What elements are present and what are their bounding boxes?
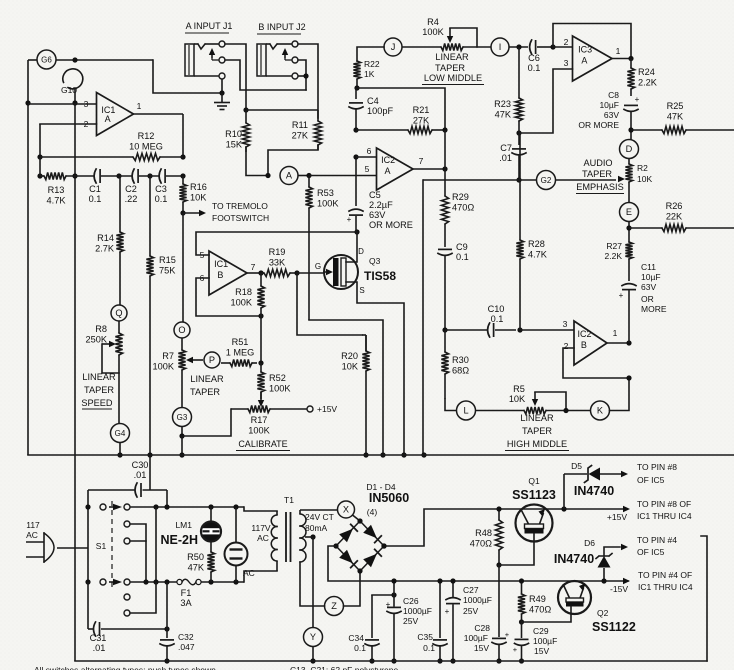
svg-text:+: + xyxy=(505,630,510,639)
node D xyxy=(620,140,639,159)
wire minus rail xyxy=(328,546,630,584)
op-amp IC3 A xyxy=(564,36,621,81)
wire xyxy=(298,175,309,177)
wire xyxy=(166,175,183,177)
wire xyxy=(153,60,222,93)
svg-text:470Ω: 470Ω xyxy=(529,605,551,615)
resistor R50 xyxy=(187,542,214,583)
svg-text:IC1: IC1 xyxy=(214,259,228,269)
plug 117AC xyxy=(26,520,88,562)
label low middle xyxy=(422,52,484,85)
switch S1 row2 xyxy=(124,521,146,541)
svg-text:+: + xyxy=(347,215,352,224)
jack J1 tip contact xyxy=(219,41,225,47)
wire xyxy=(312,537,314,628)
svg-text:R52: R52 xyxy=(269,373,286,383)
wire xyxy=(74,89,76,661)
wire G2 line xyxy=(423,180,537,455)
wire pin2 bracket xyxy=(553,24,631,59)
svg-text:1: 1 xyxy=(616,46,621,56)
node junction xyxy=(563,408,568,413)
svg-text:C10: C10 xyxy=(488,304,505,314)
capacitor C9 xyxy=(438,242,469,330)
node junction xyxy=(601,578,606,583)
svg-text:SS1123: SS1123 xyxy=(512,488,556,502)
wire row1-row4 link xyxy=(155,507,157,582)
svg-text:C6: C6 xyxy=(528,53,540,63)
wire -15 branch xyxy=(521,621,523,623)
diode D2 xyxy=(363,525,382,544)
svg-text:R4: R4 xyxy=(427,17,439,27)
wire Q2 base xyxy=(522,607,572,623)
label speed xyxy=(81,372,116,409)
svg-text:117: 117 xyxy=(26,520,40,530)
svg-text:R17: R17 xyxy=(251,415,268,425)
resistor R15 xyxy=(146,176,176,276)
wire xyxy=(260,316,262,363)
wire out xyxy=(607,342,629,344)
svg-text:4.7K: 4.7K xyxy=(47,196,67,206)
wire secondary bottom xyxy=(300,562,325,606)
svg-text:D: D xyxy=(358,247,364,256)
svg-text:D6: D6 xyxy=(584,538,595,548)
resistor R26 xyxy=(629,201,734,232)
wire pin6 bracket xyxy=(196,278,261,316)
potentiometer R5 xyxy=(509,384,546,414)
svg-text:C2: C2 xyxy=(125,184,137,194)
wire plus rail xyxy=(384,506,630,546)
svg-text:33K: 33K xyxy=(269,258,286,268)
svg-text:100K: 100K xyxy=(248,426,270,436)
diode D4 xyxy=(363,549,382,568)
svg-text:10µF: 10µF xyxy=(599,100,619,110)
node junction xyxy=(37,173,42,178)
capacitor C27 xyxy=(445,581,492,661)
svg-text:TAPER: TAPER xyxy=(582,169,612,179)
wire xyxy=(509,46,528,48)
capacitor C6 xyxy=(528,40,541,73)
node junction xyxy=(153,504,158,509)
switch S1 dashed xyxy=(96,501,112,588)
svg-text:63V: 63V xyxy=(641,282,656,292)
resistor R19 xyxy=(261,247,297,277)
ground xyxy=(214,93,230,110)
node X xyxy=(338,501,355,518)
svg-text:K: K xyxy=(597,406,604,416)
svg-text:C8: C8 xyxy=(608,90,619,100)
svg-text:63V: 63V xyxy=(369,210,386,220)
node junction xyxy=(354,229,359,234)
svg-text:2: 2 xyxy=(564,37,569,47)
wire xyxy=(556,179,617,181)
wire xyxy=(201,581,244,583)
svg-text:R22: R22 xyxy=(364,59,380,69)
wire R8 wiper xyxy=(102,341,119,373)
zener D5 IN4740 xyxy=(564,461,628,509)
label R4 xyxy=(422,17,444,37)
svg-text:1: 1 xyxy=(137,101,142,111)
transformer T1 secondary xyxy=(300,510,334,562)
svg-text:C1: C1 xyxy=(89,184,101,194)
wire xyxy=(445,399,456,411)
node junction xyxy=(391,658,396,663)
svg-text:TAPER: TAPER xyxy=(435,63,465,73)
switch S1 row4 xyxy=(85,579,177,585)
node junction xyxy=(258,360,263,365)
node J xyxy=(384,38,402,56)
resistor R27 xyxy=(605,241,633,281)
svg-text:R14: R14 xyxy=(97,233,114,243)
svg-text:100K: 100K xyxy=(317,199,339,209)
node junction xyxy=(496,506,501,511)
svg-text:+: + xyxy=(386,600,391,609)
svg-text:LINEAR: LINEAR xyxy=(435,52,469,62)
svg-text:G4: G4 xyxy=(115,429,126,438)
svg-text:C9: C9 xyxy=(456,242,468,252)
svg-text:80mA: 80mA xyxy=(305,523,328,533)
svg-text:75K: 75K xyxy=(159,266,176,276)
resistor R25 xyxy=(631,101,734,134)
svg-text:IC2: IC2 xyxy=(381,155,395,165)
node junction xyxy=(391,578,396,583)
node junction xyxy=(265,173,270,178)
resistor R52 xyxy=(257,363,291,399)
svg-text:100K: 100K xyxy=(231,298,253,308)
jack J1 switch arrow xyxy=(209,48,215,58)
node junction xyxy=(258,313,263,318)
svg-text:C13, C21: 62 pF polystyrene: C13, C21: 62 pF polystyrene xyxy=(290,665,398,670)
svg-text:R50: R50 xyxy=(187,552,204,562)
node junction xyxy=(626,375,631,380)
capacitor C31 xyxy=(88,582,167,653)
wire audio bus xyxy=(28,454,734,456)
svg-text:7: 7 xyxy=(419,156,424,166)
node junction xyxy=(243,107,248,112)
wire xyxy=(476,410,525,412)
audio taper pot R2 xyxy=(625,159,652,203)
svg-text:TO PIN #8 OF: TO PIN #8 OF xyxy=(637,499,691,509)
node junction xyxy=(628,127,633,132)
node junction xyxy=(561,506,566,511)
wire xyxy=(244,571,277,582)
wire xyxy=(300,509,338,511)
svg-text:+: + xyxy=(619,291,624,300)
resistor R18 xyxy=(231,273,265,316)
wire output bracket xyxy=(701,536,707,661)
node junction xyxy=(164,504,169,509)
label bridge diodes xyxy=(0,0,1,1)
svg-text:3A: 3A xyxy=(180,598,192,608)
node junction xyxy=(233,504,238,509)
capacitor C29 xyxy=(513,622,557,661)
wire xyxy=(181,427,183,437)
svg-text:Q2: Q2 xyxy=(597,608,609,618)
svg-text:A: A xyxy=(286,171,293,181)
resistor R11 xyxy=(292,110,322,150)
resistor R28 xyxy=(516,133,547,330)
svg-text:+15V: +15V xyxy=(317,404,337,414)
wire pin6 xyxy=(356,156,377,158)
wire xyxy=(221,79,223,93)
terminal to tremolo footswitch xyxy=(183,201,269,223)
svg-text:IC2: IC2 xyxy=(578,329,592,339)
node junction xyxy=(353,127,358,132)
svg-text:+15V: +15V xyxy=(607,512,627,522)
wire xyxy=(610,378,630,411)
wire xyxy=(139,175,159,177)
svg-text:R48: R48 xyxy=(475,528,492,538)
svg-text:IC1 THRU IC4: IC1 THRU IC4 xyxy=(638,582,693,592)
zener D6 IN4740 xyxy=(554,538,628,581)
fuse F1 xyxy=(177,579,201,608)
label linear taper xyxy=(190,374,224,397)
svg-text:R12: R12 xyxy=(138,131,155,141)
svg-text:C28: C28 xyxy=(474,623,490,633)
svg-text:.01: .01 xyxy=(93,643,106,653)
svg-text:T1: T1 xyxy=(284,495,294,505)
svg-text:0.1: 0.1 xyxy=(89,194,102,204)
wire pin3 IC2B xyxy=(520,329,574,331)
svg-text:Q: Q xyxy=(115,308,122,318)
svg-text:R2: R2 xyxy=(637,163,648,173)
svg-text:SPEED: SPEED xyxy=(81,398,113,408)
switch S1 row6 xyxy=(124,582,156,616)
svg-text:R49: R49 xyxy=(529,594,546,604)
resistor R49 xyxy=(518,581,551,622)
wire R52 wiper xyxy=(258,392,264,407)
svg-text:25V: 25V xyxy=(403,616,418,626)
svg-text:10µF: 10µF xyxy=(641,272,661,282)
svg-text:R28: R28 xyxy=(528,239,545,249)
svg-text:0.1: 0.1 xyxy=(155,194,168,204)
svg-text:B INPUT J2: B INPUT J2 xyxy=(258,22,305,32)
potentiometer R4 xyxy=(402,43,491,50)
node junction xyxy=(391,592,396,597)
svg-text:3: 3 xyxy=(564,58,569,68)
svg-text:6: 6 xyxy=(367,146,372,156)
resistor R7 pot xyxy=(153,338,186,372)
wire node A to IC2A pin5 xyxy=(309,175,377,177)
svg-text:100K: 100K xyxy=(269,384,291,394)
svg-text:.01: .01 xyxy=(499,153,512,163)
resistor R53 xyxy=(305,176,339,321)
svg-text:R7: R7 xyxy=(162,351,174,361)
svg-text:25V: 25V xyxy=(463,606,478,616)
svg-text:C7: C7 xyxy=(500,143,512,153)
node junction xyxy=(147,452,152,457)
node junction xyxy=(517,327,522,332)
op-amp IC2 B xyxy=(563,319,618,365)
svg-text:5: 5 xyxy=(365,164,370,174)
node junction xyxy=(180,210,185,215)
svg-text:Q1: Q1 xyxy=(528,476,540,486)
terminal +15V xyxy=(307,404,337,414)
svg-text:B: B xyxy=(581,340,587,350)
node junction center tap xyxy=(305,534,316,539)
node junction xyxy=(442,166,447,171)
svg-text:0.1: 0.1 xyxy=(354,643,366,653)
svg-text:C11: C11 xyxy=(641,262,656,272)
node Q xyxy=(111,305,127,321)
svg-text:R5: R5 xyxy=(513,384,525,394)
node junction xyxy=(550,44,555,49)
wire xyxy=(518,121,520,133)
wire jack1 tip xyxy=(225,44,246,107)
svg-text:R13: R13 xyxy=(48,185,65,195)
svg-text:TO PIN #8: TO PIN #8 xyxy=(637,462,677,472)
svg-text:EMPHASIS: EMPHASIS xyxy=(576,182,623,192)
svg-text:A INPUT J1: A INPUT J1 xyxy=(186,21,233,31)
capacitor C34 xyxy=(348,595,394,661)
svg-text:117V: 117V xyxy=(251,523,271,533)
svg-text:R18: R18 xyxy=(235,287,252,297)
wire xyxy=(246,147,268,176)
node junction xyxy=(180,173,185,178)
svg-text:R19: R19 xyxy=(269,247,286,257)
svg-text:3: 3 xyxy=(563,319,568,329)
svg-text:0.1: 0.1 xyxy=(528,63,541,73)
svg-text:.01: .01 xyxy=(134,470,147,480)
svg-text:TO PIN #4: TO PIN #4 xyxy=(637,535,677,545)
node junction xyxy=(208,504,213,509)
label to pin4 xyxy=(638,570,693,592)
AC outlet xyxy=(225,507,255,582)
jack J2 sleeve contact xyxy=(292,73,298,79)
node junction xyxy=(306,173,311,178)
transistor Q1 SS1123 xyxy=(512,476,556,542)
svg-text:OR: OR xyxy=(641,294,654,304)
jack J2 switch arrow xyxy=(282,48,288,58)
node junction xyxy=(294,270,299,275)
wire xyxy=(244,507,277,511)
svg-text:I: I xyxy=(499,42,502,52)
node junction xyxy=(143,579,148,584)
node K xyxy=(591,401,610,420)
svg-text:G6: G6 xyxy=(41,56,52,65)
node G2 xyxy=(537,171,556,190)
wire xyxy=(444,130,446,169)
transformer T1 core xyxy=(286,512,291,562)
svg-text:D5: D5 xyxy=(571,461,582,471)
jack J2 mid contact xyxy=(285,57,298,63)
wire xyxy=(182,409,231,436)
resistor R29 xyxy=(441,169,474,247)
svg-text:TAPER: TAPER xyxy=(522,426,552,436)
svg-text:C26: C26 xyxy=(403,596,419,606)
svg-text:(4): (4) xyxy=(367,507,378,517)
wire xyxy=(309,320,383,455)
svg-text:-15V: -15V xyxy=(610,584,628,594)
svg-text:250K: 250K xyxy=(86,335,108,345)
label +15V xyxy=(607,512,627,522)
svg-text:LOW MIDDLE: LOW MIDDLE xyxy=(424,73,482,83)
svg-text:27K: 27K xyxy=(292,131,309,141)
node junction xyxy=(164,658,169,663)
op-amp IC2 A xyxy=(365,146,424,190)
resistor R12 xyxy=(40,131,183,161)
svg-text:470Ω: 470Ω xyxy=(452,203,474,213)
node P xyxy=(204,352,220,368)
svg-text:G3: G3 xyxy=(177,413,188,422)
node junction xyxy=(180,154,185,159)
node junction xyxy=(219,90,224,95)
node junction xyxy=(516,130,521,135)
bridge rectifier D1-D4 xyxy=(333,482,409,574)
wire xyxy=(118,355,120,424)
capacitor C5 xyxy=(347,157,413,232)
wire xyxy=(40,124,97,157)
capacitor C30 xyxy=(88,460,167,507)
svg-text:OF IC5: OF IC5 xyxy=(637,547,665,557)
svg-text:AC: AC xyxy=(257,533,269,543)
node junction xyxy=(179,433,184,438)
wire out xyxy=(612,58,631,60)
wire gate xyxy=(297,272,324,274)
svg-text:LINEAR: LINEAR xyxy=(82,372,116,382)
capacitor C11 xyxy=(619,262,667,343)
svg-text:R53: R53 xyxy=(317,188,334,198)
capacitor C7 xyxy=(499,133,526,180)
svg-text:R27: R27 xyxy=(606,241,622,251)
svg-text:SS1122: SS1122 xyxy=(592,620,636,634)
capacitor C2 xyxy=(125,169,138,204)
node junction xyxy=(258,270,263,275)
wire Q1 base xyxy=(499,534,534,566)
svg-text:X: X xyxy=(343,505,349,515)
svg-text:47K: 47K xyxy=(188,563,205,573)
wire xyxy=(270,408,307,410)
op-amp IC1 B xyxy=(200,250,256,295)
svg-text:.22: .22 xyxy=(125,194,138,204)
wire xyxy=(182,213,184,322)
wire xyxy=(344,571,361,606)
svg-text:G2: G2 xyxy=(541,176,552,185)
node junction xyxy=(72,100,77,105)
label A INPUT J1 xyxy=(185,21,232,33)
svg-text:J: J xyxy=(391,42,396,52)
svg-text:TO PIN #4 OF: TO PIN #4 OF xyxy=(638,570,692,580)
wire out7 xyxy=(413,168,445,170)
resistor R23 xyxy=(494,47,522,121)
node junction xyxy=(401,452,406,457)
svg-text:100µF: 100µF xyxy=(533,636,557,646)
node junction xyxy=(303,73,308,78)
wire xyxy=(27,60,29,455)
svg-text:D: D xyxy=(626,144,633,154)
svg-text:S: S xyxy=(359,286,364,295)
svg-text:C4: C4 xyxy=(367,96,379,106)
svg-text:68Ω: 68Ω xyxy=(452,366,469,376)
node junction xyxy=(450,578,455,663)
capacitor C28 xyxy=(464,565,510,661)
svg-text:A: A xyxy=(581,56,587,66)
node junction xyxy=(37,154,42,159)
node junction xyxy=(496,562,501,567)
wire xyxy=(39,157,41,176)
svg-text:15V: 15V xyxy=(534,646,549,656)
switch S1 row1 xyxy=(85,504,244,510)
node junction xyxy=(354,85,359,90)
svg-text:1: 1 xyxy=(613,328,618,338)
svg-text:100pF: 100pF xyxy=(367,106,393,116)
node G6 xyxy=(37,50,56,69)
wire jack1 mid link xyxy=(225,60,306,90)
svg-text:AC: AC xyxy=(26,530,38,540)
svg-text:C32: C32 xyxy=(178,632,194,642)
svg-text:C3: C3 xyxy=(155,184,167,194)
node junction xyxy=(369,658,374,663)
wire xyxy=(134,114,184,157)
